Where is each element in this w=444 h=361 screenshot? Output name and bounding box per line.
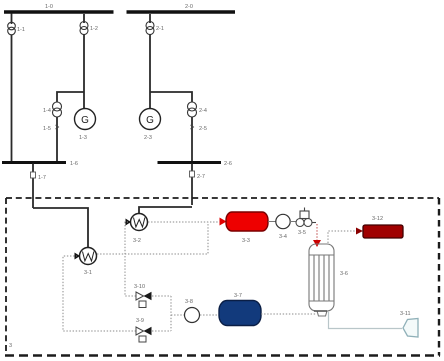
pipe valve 3-10 right dotted [152, 295, 171, 297]
dark red vessel 3-12 [363, 225, 403, 238]
svg-text:2-3: 2-3 [144, 135, 152, 141]
svg-text:2-6: 2-6 [224, 161, 232, 167]
wire bus 2-6 down into box [191, 164, 193, 206]
svg-text:3-6: 3-6 [340, 271, 348, 277]
wire node to generator 1-3 [83, 92, 85, 109]
dashed subsystem box [5, 198, 440, 356]
pipe compressor 3-1 suction dotted [63, 256, 136, 331]
svg-text:3-4: 3-4 [279, 234, 287, 240]
stub pump to valve 3-5 [290, 221, 296, 223]
pipe valve 3-5 to HX red dotted [316, 224, 318, 241]
compressor 3-1 [75, 248, 97, 265]
pipe HX bottom to sink [329, 312, 403, 329]
svg-text:1-7: 1-7 [38, 175, 46, 181]
svg-text:3-10: 3-10 [134, 284, 145, 290]
svg-text:3-2: 3-2 [133, 238, 141, 244]
motor valve 3-5 [296, 208, 316, 227]
svg-text:3-5: 3-5 [298, 230, 306, 236]
arrow into dark red vessel [356, 228, 363, 235]
svg-text:1-6: 1-6 [70, 161, 78, 167]
pipe junction vertical dotted [170, 296, 172, 331]
compressor 3-2 [126, 214, 148, 231]
blue vessel 3-7 [219, 301, 261, 326]
svg-text:G: G [81, 115, 89, 126]
sink 3-11 [403, 319, 418, 338]
heat exchanger 3-6 [309, 244, 334, 316]
valve 3-10 [136, 292, 152, 308]
pipe junction to pump 3-8 dotted [171, 314, 184, 316]
wire breaker 2-1 down to node [149, 35, 151, 110]
svg-text:3-3: 3-3 [242, 238, 250, 244]
wire transformer 2-4 to bus 2-6 [191, 117, 193, 161]
wire breaker 1-2 down to node [83, 35, 85, 93]
svg-text:2-4: 2-4 [199, 108, 207, 114]
generator 1-3 [75, 109, 96, 130]
busbar 2-6 [158, 161, 222, 164]
pipe compressor 3-2 suction dotted [125, 222, 136, 296]
svg-text:3-1: 3-1 [84, 270, 92, 276]
switch 1-7 [31, 172, 36, 178]
transformer 1-4 [53, 102, 62, 117]
breaker 2-1 [146, 22, 154, 35]
svg-text:3-9: 3-9 [136, 318, 144, 324]
wire bus1 to breaker 1-2 [83, 14, 85, 23]
svg-text:1-5: 1-5 [43, 126, 51, 132]
svg-text:1-3: 1-3 [79, 135, 87, 141]
svg-text:3-11: 3-11 [400, 311, 411, 317]
svg-text:1-4: 1-4 [43, 108, 51, 114]
svg-text:1-1: 1-1 [17, 27, 25, 33]
generator 2-3 [140, 109, 161, 130]
wire breaker 1-1 to bus 1-6 [11, 35, 13, 161]
switch 2-7 [190, 171, 195, 177]
pipe HX to hot sink dotted [328, 231, 356, 243]
svg-text:2-5: 2-5 [199, 126, 207, 132]
wire bus2 to breaker 2-1 [149, 14, 151, 23]
pipe valve 3-9 right dotted [152, 330, 171, 332]
wire feed to compressor 3-2 [139, 207, 192, 214]
wire feed to compressor 3-1 [33, 208, 88, 248]
pipe compressor 3-1 discharge dotted [97, 222, 208, 254]
svg-text:2-7: 2-7 [197, 174, 205, 180]
red vessel 3-3 [226, 212, 268, 231]
svg-text:3-12: 3-12 [372, 216, 383, 222]
wire branch node to transformer column [57, 92, 84, 102]
svg-text:3: 3 [9, 343, 12, 349]
line mark 2-5 [191, 125, 194, 129]
valve 3-9 [136, 327, 152, 342]
svg-text:3-8: 3-8 [185, 299, 193, 305]
svg-text:1-0: 1-0 [45, 4, 53, 10]
busbar 1-0 [4, 10, 114, 14]
transformer 2-4 [188, 102, 197, 117]
line mark 1-5 [56, 125, 59, 129]
busbar 1-6 [2, 161, 66, 164]
arrow into red vessel [220, 218, 227, 226]
svg-text:2-0: 2-0 [185, 4, 193, 10]
breaker 1-2 [80, 22, 88, 35]
pump 3-4 [276, 214, 290, 228]
pipe blue vessel to HX bottom dotted [261, 313, 316, 315]
wire bus 1-6 down into box [32, 164, 34, 209]
breaker 1-1 [8, 22, 16, 35]
svg-text:2-1: 2-1 [156, 26, 164, 32]
stub red vessel to pump 3-4 [268, 221, 276, 223]
svg-text:3-7: 3-7 [234, 293, 242, 299]
wire bus1 to breaker 1-1 [11, 14, 13, 25]
HX bottom flange [314, 310, 327, 312]
svg-text:G: G [146, 115, 154, 126]
busbar 2-0 [127, 10, 236, 14]
pump 3-8 [185, 308, 200, 323]
wire branch node to transformer 2-4 [150, 92, 192, 102]
arrow into HX top [313, 240, 321, 247]
pipe pump 3-8 to blue vessel dotted [200, 314, 219, 316]
pipe compressor 3-2 discharge to condenser dotted [148, 221, 219, 223]
wire transformer to bus 1-6 [56, 117, 58, 161]
svg-text:1-2: 1-2 [90, 26, 98, 32]
